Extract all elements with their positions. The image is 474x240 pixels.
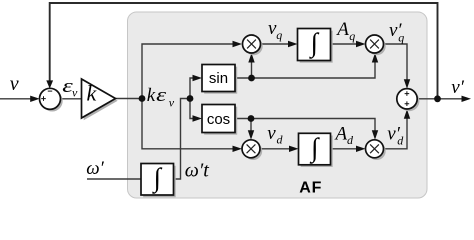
cos box <box>202 105 235 133</box>
svg-text:A: A <box>334 123 348 144</box>
q-integrator box <box>298 29 331 61</box>
svg-text:∫: ∫ <box>309 132 320 164</box>
wire: sum to gain <box>61 98 82 100</box>
svg-text:∫: ∫ <box>309 28 320 60</box>
svg-text:k: k <box>87 81 98 106</box>
svg-text:q: q <box>276 28 282 42</box>
multiplier q-mult1 <box>243 35 261 53</box>
q-integrator shadow <box>300 31 333 63</box>
q-mult2 shadow <box>368 37 386 55</box>
wire: cos node down into d-mult1 <box>250 119 252 133</box>
omega integrator shadow <box>143 166 176 198</box>
output sum shadow <box>399 91 419 111</box>
output summing junction S2 <box>397 89 417 109</box>
d-mult1 shadow <box>244 142 262 160</box>
wire: branch to sin <box>190 78 194 99</box>
svg-text:ω′t: ω′t <box>185 160 209 182</box>
svg-text:cos: cos <box>207 111 230 128</box>
svg-text:sin: sin <box>209 70 228 87</box>
svg-text:v: v <box>267 123 276 144</box>
node output <box>434 95 441 102</box>
svg-text:v: v <box>72 86 78 100</box>
node cos output <box>248 115 255 122</box>
svg-text:ε: ε <box>156 85 167 106</box>
multiplier q-mult2 <box>366 35 384 53</box>
cos box shadow <box>204 107 237 135</box>
summing junction S1 <box>40 88 61 109</box>
svg-text:v′: v′ <box>451 77 464 98</box>
wire: q-mult2 output down into output sum <box>384 44 408 81</box>
summing junction shadow <box>42 91 63 112</box>
wire: sin node up into q-mult1 <box>251 61 253 78</box>
svg-text:ω′: ω′ <box>86 158 104 179</box>
wire: output sum to v' output <box>417 98 462 100</box>
wire: sin output to q-mult2 riser <box>235 61 375 78</box>
gain triangle shadow <box>84 81 118 120</box>
svg-text:q: q <box>398 30 404 44</box>
wire: d-mult1 to d-integrator <box>260 148 291 150</box>
wire: omega't from integrator up to branch node <box>174 99 191 180</box>
svg-text:v: v <box>10 73 19 95</box>
multiplier d-mult1 <box>242 140 260 158</box>
d-integrator box <box>299 133 331 165</box>
d-integrator shadow <box>301 136 333 168</box>
node kεv <box>139 95 146 102</box>
svg-text:k: k <box>147 85 156 106</box>
multiplier d-mult2 <box>366 140 384 158</box>
wire: q-route kεv up and right to q-mult1 <box>142 44 234 99</box>
svg-text:d: d <box>397 133 404 147</box>
wire: q-integrator to q-mult2 <box>331 43 358 45</box>
gain k triangle <box>82 79 116 118</box>
sin box shadow <box>204 67 237 94</box>
wire: branch to cos <box>190 99 194 119</box>
wire: d-route kεv down and right to d-mult1 <box>142 99 234 149</box>
wire: feedback loop <box>50 3 438 99</box>
wire: d-integrator to d-mult2 <box>331 148 358 150</box>
wire: omega' input to integrator <box>87 178 141 180</box>
wire: gain output to node kεv <box>116 98 143 100</box>
svg-text:d: d <box>277 133 284 147</box>
svg-text:AF: AF <box>299 180 322 197</box>
wire: d-mult2 output up into output sum <box>384 117 408 149</box>
svg-text:q: q <box>349 29 355 43</box>
wire: q-mult1 to q-integrator <box>261 43 290 45</box>
svg-text:∫: ∫ <box>152 163 163 195</box>
node sin output <box>248 75 255 82</box>
omega integrator box <box>141 164 174 196</box>
q-mult1 shadow <box>245 37 263 55</box>
svg-text:A: A <box>335 19 349 40</box>
node omega't branch <box>187 95 194 102</box>
svg-text:v: v <box>169 96 175 110</box>
wire: cos output to d-mult2 riser <box>235 119 375 133</box>
AF block background <box>128 12 428 198</box>
d-mult2 shadow <box>368 142 386 160</box>
wire: v input <box>0 98 32 100</box>
sin box <box>202 65 235 92</box>
svg-text:d: d <box>347 133 354 147</box>
